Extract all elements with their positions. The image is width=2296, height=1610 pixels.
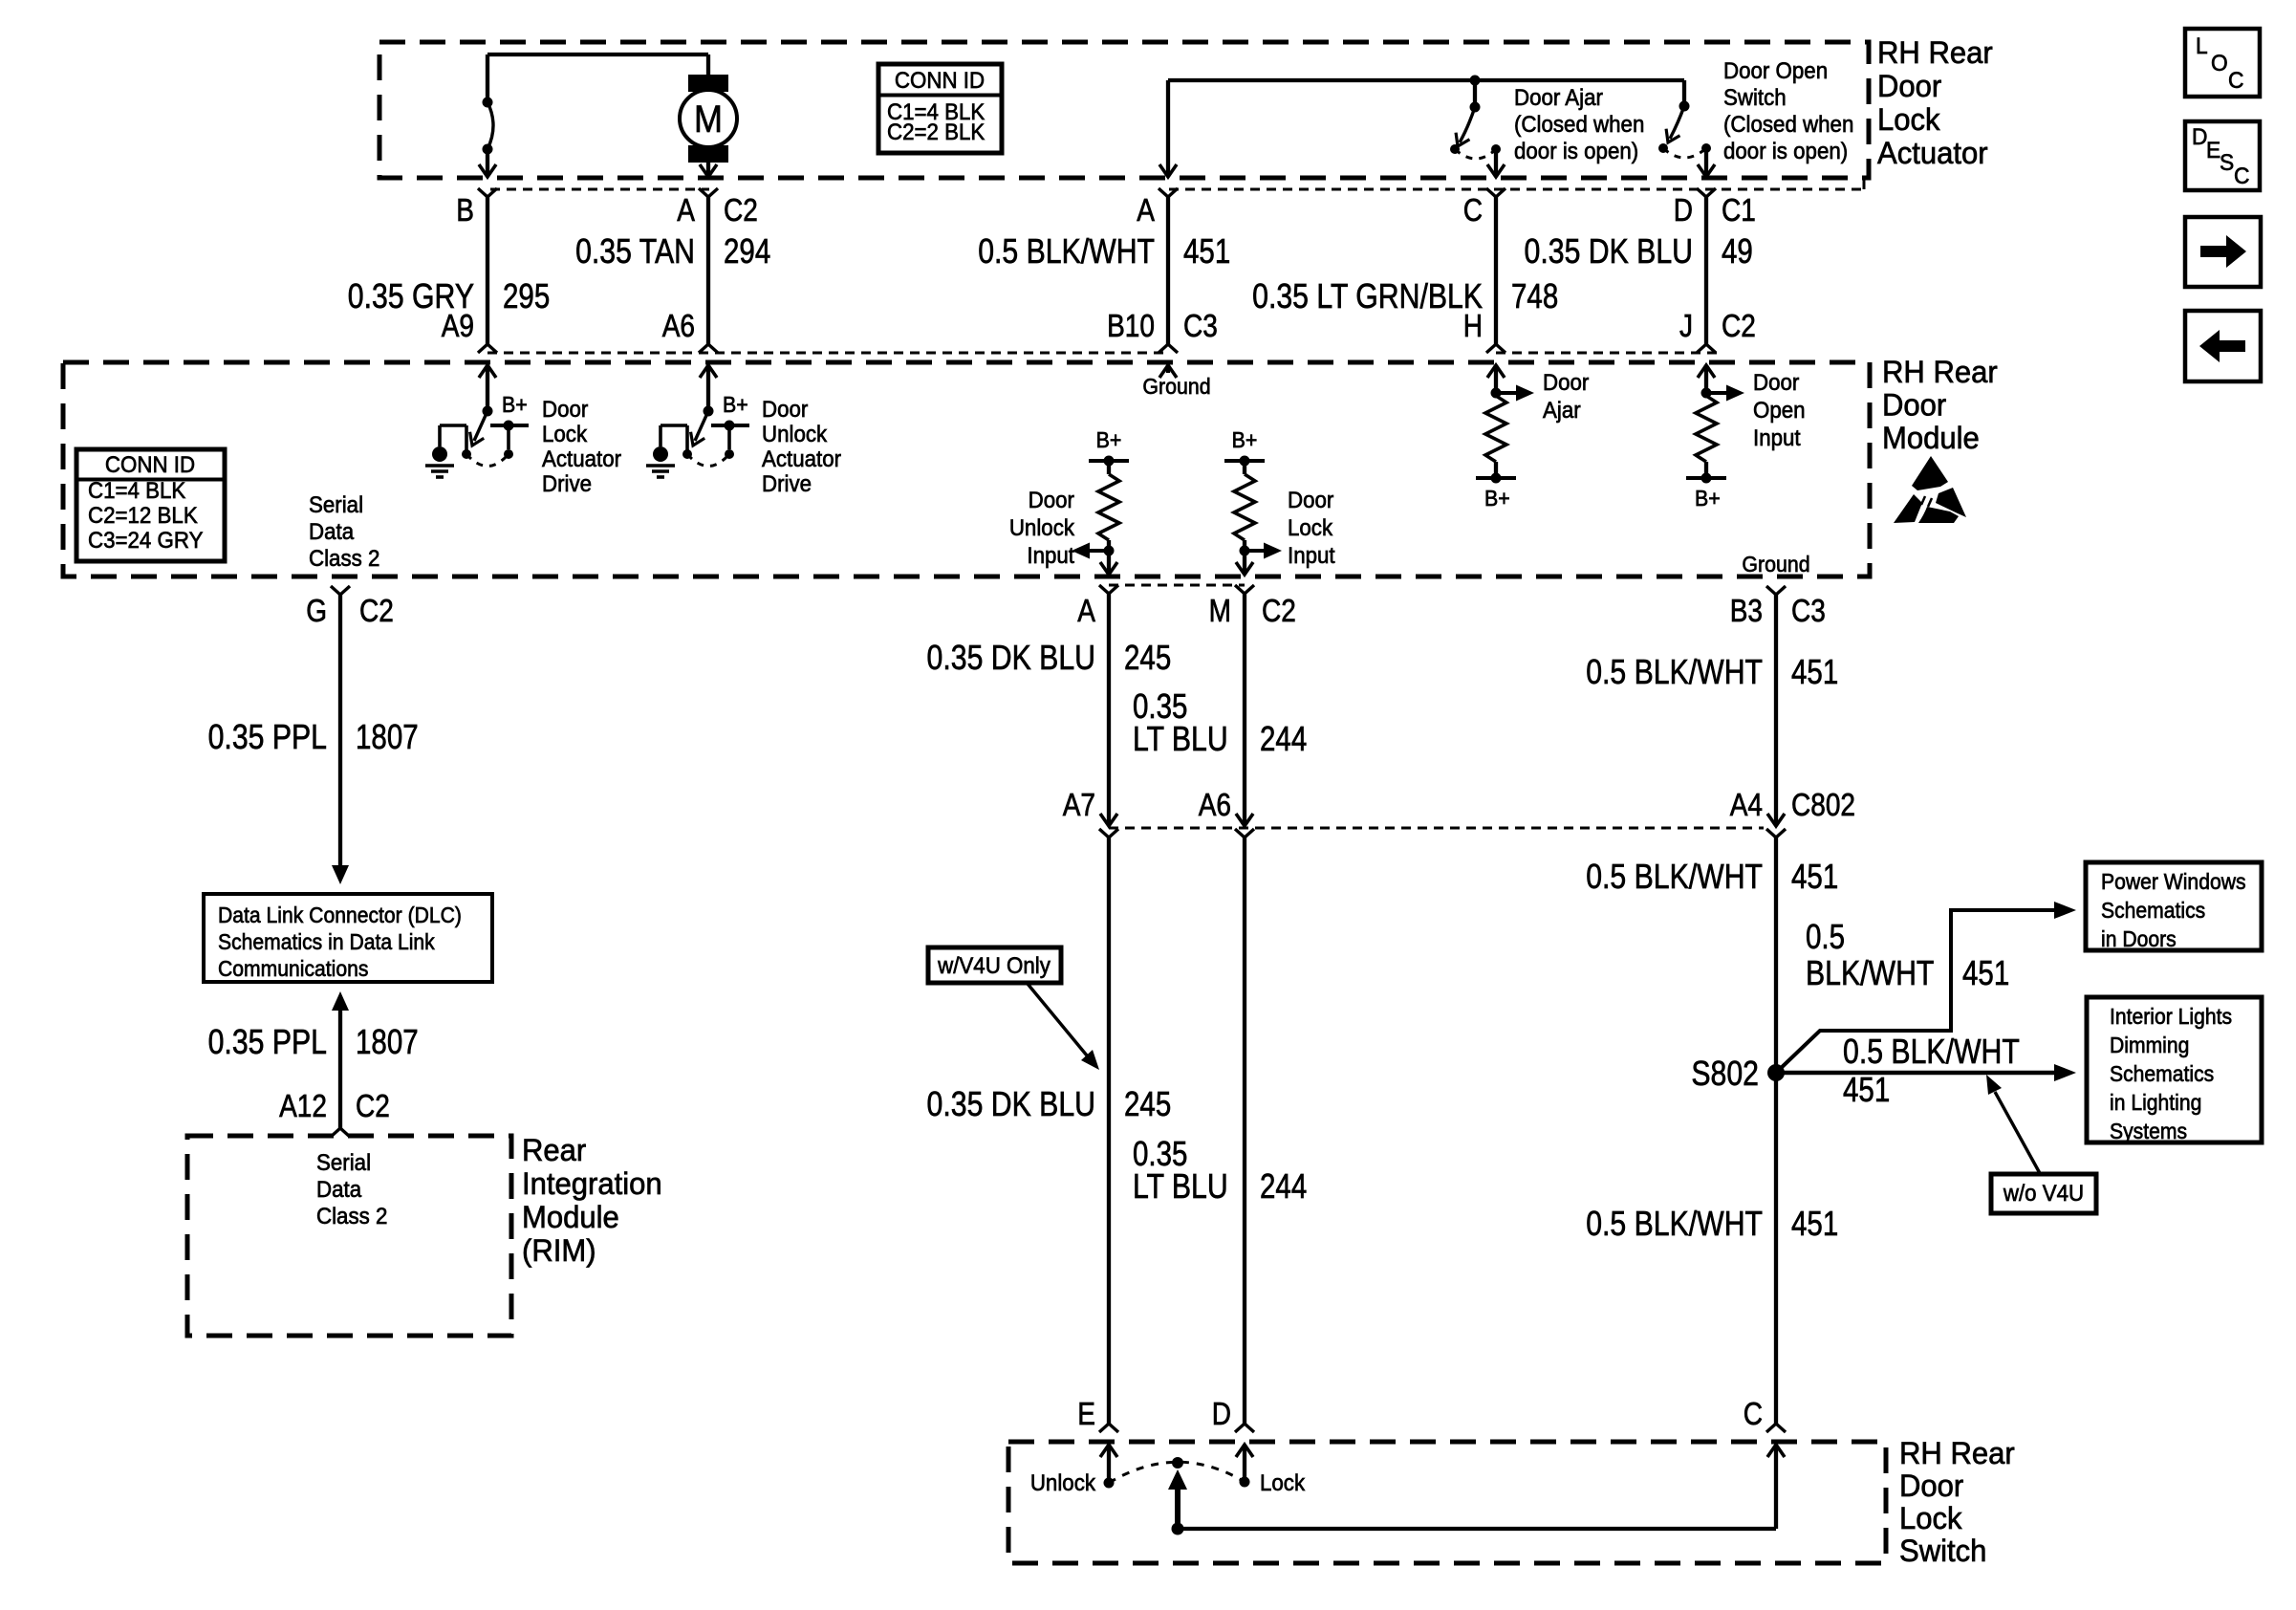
pin D (switch) bbox=[1235, 1424, 1254, 1432]
svg-text:Door Open: Door Open bbox=[1723, 57, 1828, 83]
unlock contact (switch) bbox=[1100, 1445, 1117, 1457]
wire 295 GRY (B to A9) bbox=[486, 197, 489, 344]
svg-text:Actuator: Actuator bbox=[1877, 136, 1988, 171]
pin J (C2) bbox=[1697, 344, 1716, 353]
svg-text:S: S bbox=[2220, 149, 2234, 175]
pin C (C1) bbox=[1486, 188, 1505, 197]
svg-text:Lock: Lock bbox=[1288, 514, 1333, 540]
LOC nav icon bbox=[2185, 29, 2260, 97]
back arrow nav icon bbox=[2185, 311, 2261, 381]
forward arrow nav icon bbox=[2185, 217, 2261, 287]
wire 244 LT BLU (A6 down) bbox=[1243, 838, 1246, 1424]
svg-text:B+: B+ bbox=[1484, 486, 1510, 511]
ground (lock actuator drive) bbox=[432, 446, 447, 462]
ground (unlock actuator drive) bbox=[653, 446, 668, 462]
svg-text:Unlock: Unlock bbox=[762, 421, 828, 446]
CONN ID table (module) bbox=[76, 449, 225, 561]
svg-text:Door: Door bbox=[1753, 369, 1800, 395]
svg-text:Input: Input bbox=[1753, 424, 1801, 450]
svg-text:Drive: Drive bbox=[762, 470, 812, 496]
svg-text:C: C bbox=[1744, 1397, 1763, 1432]
svg-text:0.35 TAN: 0.35 TAN bbox=[575, 233, 695, 272]
svg-text:D: D bbox=[2192, 123, 2207, 149]
svg-text:CONN ID: CONN ID bbox=[105, 451, 195, 477]
pin M (module C2) bbox=[1235, 585, 1254, 594]
svg-text:Switch: Switch bbox=[1899, 1534, 1986, 1569]
svg-text:D: D bbox=[1212, 1397, 1231, 1432]
svg-text:245: 245 bbox=[1124, 1084, 1171, 1122]
svg-text:A: A bbox=[677, 193, 695, 228]
svg-text:B+: B+ bbox=[723, 392, 748, 417]
svg-text:Rear: Rear bbox=[522, 1133, 586, 1168]
svg-text:245: 245 bbox=[1124, 638, 1171, 676]
Rear Integration Module (RIM) box (dashed) bbox=[187, 1136, 511, 1336]
Door Open Switch (actuator) bbox=[1682, 80, 1686, 106]
svg-text:L: L bbox=[2196, 33, 2208, 58]
splice S802 bbox=[1767, 1064, 1785, 1081]
wire 451 BLK/WHT (A4 to S802 to C) bbox=[1774, 838, 1778, 1424]
lock contact (switch) bbox=[1236, 1445, 1253, 1457]
pin A7 (C802) bbox=[1099, 829, 1118, 838]
wire 451 BLK/WHT (B3 to A4) bbox=[1774, 595, 1778, 825]
svg-text:in Doors: in Doors bbox=[2101, 926, 2177, 951]
pin A6 (C802) bbox=[1235, 829, 1254, 838]
svg-text:Communications: Communications bbox=[218, 956, 368, 981]
svg-text:BLK/WHT: BLK/WHT bbox=[1806, 955, 1934, 993]
svg-text:C2=2 BLK: C2=2 BLK bbox=[887, 119, 986, 144]
svg-text:C3=24 GRY: C3=24 GRY bbox=[88, 527, 203, 553]
svg-text:C1=4 BLK: C1=4 BLK bbox=[88, 477, 186, 503]
svg-text:C2: C2 bbox=[1722, 309, 1756, 344]
svg-text:Interior Lights: Interior Lights bbox=[2110, 1004, 2232, 1029]
svg-text:0.5 BLK/WHT: 0.5 BLK/WHT bbox=[1843, 1033, 2020, 1072]
pin B (C2) bbox=[478, 188, 497, 197]
svg-text:0.35 DK BLU: 0.35 DK BLU bbox=[927, 640, 1095, 678]
pin H bbox=[1486, 344, 1505, 353]
pin B3 (module C3) bbox=[1766, 586, 1786, 595]
svg-text:Schematics: Schematics bbox=[2110, 1061, 2214, 1086]
pin A (C2) bbox=[699, 188, 718, 197]
svg-text:RH Rear: RH Rear bbox=[1877, 35, 1993, 71]
svg-text:J: J bbox=[1679, 309, 1693, 344]
svg-text:Schematics: Schematics bbox=[2101, 898, 2205, 923]
svg-text:B: B bbox=[456, 193, 474, 228]
svg-text:B+: B+ bbox=[502, 392, 528, 417]
Door Ajar switch (actuator) bbox=[1470, 76, 1481, 86]
RH Rear Door Lock Switch box (dashed) bbox=[1008, 1442, 1886, 1563]
svg-text:RH Rear: RH Rear bbox=[1899, 1436, 2015, 1471]
svg-text:Schematics in Data Link: Schematics in Data Link bbox=[218, 929, 436, 954]
pin A (module C2) bbox=[1099, 585, 1118, 594]
Data Link Connector (DLC) box bbox=[204, 894, 492, 982]
svg-text:Class 2: Class 2 bbox=[309, 545, 379, 571]
svg-text:C: C bbox=[2234, 163, 2249, 188]
wire C return (switch) bbox=[1172, 1523, 1184, 1535]
svg-text:Dimming: Dimming bbox=[2110, 1033, 2189, 1057]
svg-text:C2: C2 bbox=[724, 193, 758, 228]
svg-text:Data Link Connector (DLC): Data Link Connector (DLC) bbox=[218, 903, 462, 927]
svg-text:Lock: Lock bbox=[1877, 102, 1940, 138]
pin E bbox=[1099, 1424, 1118, 1432]
Door Ajar input resistor (module) bbox=[1487, 365, 1505, 378]
svg-text:C2: C2 bbox=[359, 594, 394, 629]
svg-text:0.35 LT GRN/BLK: 0.35 LT GRN/BLK bbox=[1252, 278, 1483, 316]
lock/unlock position switch (in actuator) bbox=[486, 54, 489, 102]
wire 294 TAN (A to A6) bbox=[706, 197, 710, 344]
wire 748 LT GRN/BLK (C to H) bbox=[1494, 197, 1498, 344]
w/V4U Only flag bbox=[928, 947, 1061, 983]
svg-text:451: 451 bbox=[1791, 1204, 1838, 1242]
svg-text:C: C bbox=[2228, 67, 2243, 93]
Ground label (B10) bbox=[1159, 365, 1177, 378]
wire 451 BLK/WHT (A to B10) bbox=[1166, 197, 1170, 344]
svg-text:G: G bbox=[306, 594, 327, 629]
svg-text:A4: A4 bbox=[1730, 788, 1763, 823]
svg-text:748: 748 bbox=[1511, 276, 1558, 315]
svg-text:Actuator: Actuator bbox=[542, 446, 621, 471]
svg-text:294: 294 bbox=[724, 231, 770, 270]
CONN ID table (actuator) bbox=[878, 64, 1002, 153]
svg-text:M: M bbox=[694, 98, 723, 141]
svg-text:C2: C2 bbox=[356, 1089, 390, 1124]
svg-text:B10: B10 bbox=[1107, 309, 1155, 344]
svg-text:w/o V4U: w/o V4U bbox=[2003, 1180, 2084, 1206]
svg-text:Integration: Integration bbox=[522, 1166, 662, 1202]
pin A4 (C802) bbox=[1766, 829, 1786, 838]
svg-text:244: 244 bbox=[1260, 1166, 1307, 1205]
svg-text:Ground: Ground bbox=[1742, 552, 1809, 577]
connector row C2/C1 (actuator to module wires) fine-dash bbox=[490, 188, 709, 191]
svg-text:0.5 BLK/WHT: 0.5 BLK/WHT bbox=[1586, 859, 1763, 897]
svg-text:0.35: 0.35 bbox=[1133, 1134, 1187, 1172]
svg-text:D: D bbox=[1674, 193, 1693, 228]
svg-text:C2=12 BLK: C2=12 BLK bbox=[88, 502, 198, 528]
svg-text:E: E bbox=[2206, 137, 2220, 163]
DESC nav icon bbox=[2185, 121, 2260, 190]
svg-text:in Lighting: in Lighting bbox=[2110, 1090, 2201, 1115]
svg-text:B+: B+ bbox=[1232, 427, 1258, 452]
svg-text:Module: Module bbox=[1882, 421, 1980, 456]
svg-text:B+: B+ bbox=[1096, 427, 1122, 452]
svg-text:Door: Door bbox=[1882, 387, 1946, 423]
svg-text:w/V4U Only: w/V4U Only bbox=[937, 952, 1051, 978]
pin D (C1) bbox=[1697, 188, 1716, 197]
svg-text:A: A bbox=[1137, 193, 1155, 228]
svg-text:451: 451 bbox=[1791, 857, 1838, 895]
motor M (actuator) bbox=[688, 75, 728, 92]
svg-text:Door: Door bbox=[762, 396, 809, 422]
svg-text:49: 49 bbox=[1722, 231, 1753, 270]
Interior Lights Dimming box bbox=[2087, 997, 2262, 1142]
switch lever arrow bbox=[1175, 1484, 1180, 1529]
svg-text:H: H bbox=[1463, 309, 1483, 344]
wire: actuator internal bus (switch to motor) bbox=[487, 53, 708, 56]
RH Rear Door Lock Actuator box (dashed) bbox=[379, 42, 1869, 178]
serial data wire 1807 PPL (RIM to DLC) bbox=[332, 991, 349, 1011]
svg-text:0.35 DK BLU: 0.35 DK BLU bbox=[927, 1086, 1095, 1124]
Door Unlock Actuator Drive switch (module) bbox=[700, 365, 717, 378]
svg-text:Systems: Systems bbox=[2110, 1119, 2187, 1143]
svg-text:451: 451 bbox=[1183, 231, 1230, 270]
svg-text:A12: A12 bbox=[279, 1089, 327, 1124]
svg-text:Open: Open bbox=[1753, 397, 1806, 423]
wire 244 LT BLU (M to A6) bbox=[1243, 594, 1246, 825]
svg-text:Actuator: Actuator bbox=[762, 446, 841, 471]
w/V4U Only pointer arrow bbox=[1028, 984, 1087, 1055]
wire: 451/ajar bus in actuator box bbox=[1168, 78, 1684, 82]
svg-text:C802: C802 bbox=[1791, 788, 1855, 823]
Door Open input resistor (module) bbox=[1698, 365, 1715, 378]
svg-text:A: A bbox=[1077, 594, 1095, 629]
svg-text:Data: Data bbox=[309, 518, 354, 544]
svg-text:Class 2: Class 2 bbox=[316, 1203, 387, 1229]
Power Windows Schematics in Doors box bbox=[2086, 862, 2262, 950]
svg-text:Door: Door bbox=[1543, 369, 1590, 395]
serial data wire 1807 PPL (G to DLC) bbox=[338, 595, 342, 865]
wire 245 DK BLU (A7 down) bbox=[1107, 838, 1111, 1424]
svg-text:M: M bbox=[1209, 594, 1231, 629]
svg-text:Serial: Serial bbox=[309, 491, 363, 517]
svg-text:Input: Input bbox=[1288, 542, 1335, 568]
module top connector fine-dash bbox=[487, 352, 1168, 355]
w/o V4U pointer arrow bbox=[1995, 1092, 2041, 1175]
pin C (switch) bbox=[1766, 1424, 1786, 1432]
svg-text:Drive: Drive bbox=[542, 470, 592, 496]
svg-text:LT BLU: LT BLU bbox=[1133, 721, 1228, 759]
svg-text:(Closed when: (Closed when bbox=[1723, 111, 1853, 137]
svg-text:Lock: Lock bbox=[542, 421, 588, 446]
inline connector C802 fine-dash bbox=[1109, 827, 1764, 830]
svg-text:C1: C1 bbox=[1722, 193, 1756, 228]
svg-text:Serial: Serial bbox=[316, 1149, 371, 1175]
svg-text:E: E bbox=[1077, 1397, 1095, 1432]
svg-text:Door: Door bbox=[1288, 487, 1334, 512]
svg-text:0.5 BLK/WHT: 0.5 BLK/WHT bbox=[1586, 1206, 1763, 1244]
svg-text:Ajar: Ajar bbox=[1543, 397, 1581, 423]
svg-text:451: 451 bbox=[1843, 1070, 1890, 1108]
module bottom connector C2 fine-dash bbox=[1109, 584, 1245, 587]
pin G (module C2, serial data) bbox=[331, 586, 350, 595]
pin A9 bbox=[478, 344, 497, 353]
svg-text:RH Rear: RH Rear bbox=[1882, 355, 1998, 390]
svg-text:Switch: Switch bbox=[1723, 84, 1787, 110]
wire 49 DK BLU (D to J) bbox=[1704, 197, 1708, 344]
svg-text:CONN ID: CONN ID bbox=[895, 67, 985, 93]
svg-text:door is open): door is open) bbox=[1723, 138, 1848, 163]
svg-text:Unlock: Unlock bbox=[1009, 514, 1075, 540]
svg-text:A9: A9 bbox=[442, 309, 474, 344]
svg-text:C3: C3 bbox=[1791, 594, 1826, 629]
svg-text:Module: Module bbox=[522, 1200, 619, 1235]
ESD sensitive symbol bbox=[1894, 456, 1966, 523]
wire S802 to Power Windows (451) bbox=[1776, 910, 2055, 1073]
svg-text:B3: B3 bbox=[1730, 594, 1763, 629]
svg-text:0.35 PPL: 0.35 PPL bbox=[208, 719, 327, 757]
svg-text:Door: Door bbox=[1877, 69, 1941, 104]
svg-text:451: 451 bbox=[1791, 652, 1838, 690]
svg-text:Input: Input bbox=[1027, 542, 1074, 568]
svg-text:B+: B+ bbox=[1695, 486, 1721, 511]
svg-text:295: 295 bbox=[503, 276, 550, 315]
svg-text:Data: Data bbox=[316, 1176, 361, 1202]
svg-text:S802: S802 bbox=[1691, 1055, 1759, 1094]
svg-text:door is open): door is open) bbox=[1514, 138, 1638, 163]
w/o V4U flag bbox=[1991, 1174, 2096, 1213]
svg-text:Door: Door bbox=[542, 396, 589, 422]
svg-text:Lock: Lock bbox=[1260, 1469, 1306, 1495]
svg-text:0.35 DK BLU: 0.35 DK BLU bbox=[1525, 233, 1693, 272]
svg-text:1807: 1807 bbox=[356, 1022, 419, 1060]
svg-text:(RIM): (RIM) bbox=[522, 1233, 596, 1269]
RH Rear Door Module box (dashed) bbox=[63, 362, 1870, 577]
svg-text:0.5 BLK/WHT: 0.5 BLK/WHT bbox=[1586, 654, 1763, 692]
svg-text:LT BLU: LT BLU bbox=[1133, 1168, 1228, 1207]
svg-text:1807: 1807 bbox=[356, 717, 419, 755]
svg-text:Lock: Lock bbox=[1899, 1501, 1962, 1536]
wire 245 DK BLU (A to A7) bbox=[1107, 594, 1111, 825]
svg-text:A6: A6 bbox=[662, 309, 695, 344]
Door Lock Actuator Drive switch (module) bbox=[479, 365, 496, 378]
svg-text:O: O bbox=[2211, 50, 2228, 76]
svg-text:Power Windows: Power Windows bbox=[2101, 869, 2246, 894]
svg-text:0.5: 0.5 bbox=[1806, 917, 1845, 955]
svg-text:C2: C2 bbox=[1262, 594, 1296, 629]
pin A6 bbox=[699, 344, 718, 353]
pin B10 (C3) bbox=[1159, 344, 1178, 353]
svg-text:0.35: 0.35 bbox=[1133, 686, 1187, 725]
svg-text:0.35 PPL: 0.35 PPL bbox=[208, 1024, 327, 1062]
svg-text:451: 451 bbox=[1962, 953, 2009, 991]
svg-text:A7: A7 bbox=[1063, 788, 1095, 823]
switch lever arc (dashed) bbox=[1109, 1462, 1245, 1483]
svg-text:0.5 BLK/WHT: 0.5 BLK/WHT bbox=[978, 233, 1155, 272]
wire S802 to Interior Lights (451) bbox=[1776, 1071, 2055, 1076]
svg-text:Door Ajar: Door Ajar bbox=[1514, 84, 1603, 110]
svg-text:Door: Door bbox=[1899, 1469, 1963, 1504]
svg-text:(Closed when: (Closed when bbox=[1514, 111, 1644, 137]
pin A (C1) bbox=[1159, 188, 1178, 197]
svg-text:Door: Door bbox=[1029, 487, 1075, 512]
svg-text:A6: A6 bbox=[1199, 788, 1231, 823]
svg-text:C: C bbox=[1463, 193, 1483, 228]
svg-text:Unlock: Unlock bbox=[1030, 1469, 1096, 1495]
svg-text:244: 244 bbox=[1260, 719, 1307, 757]
svg-text:C3: C3 bbox=[1183, 309, 1218, 344]
svg-text:Ground: Ground bbox=[1142, 374, 1210, 399]
